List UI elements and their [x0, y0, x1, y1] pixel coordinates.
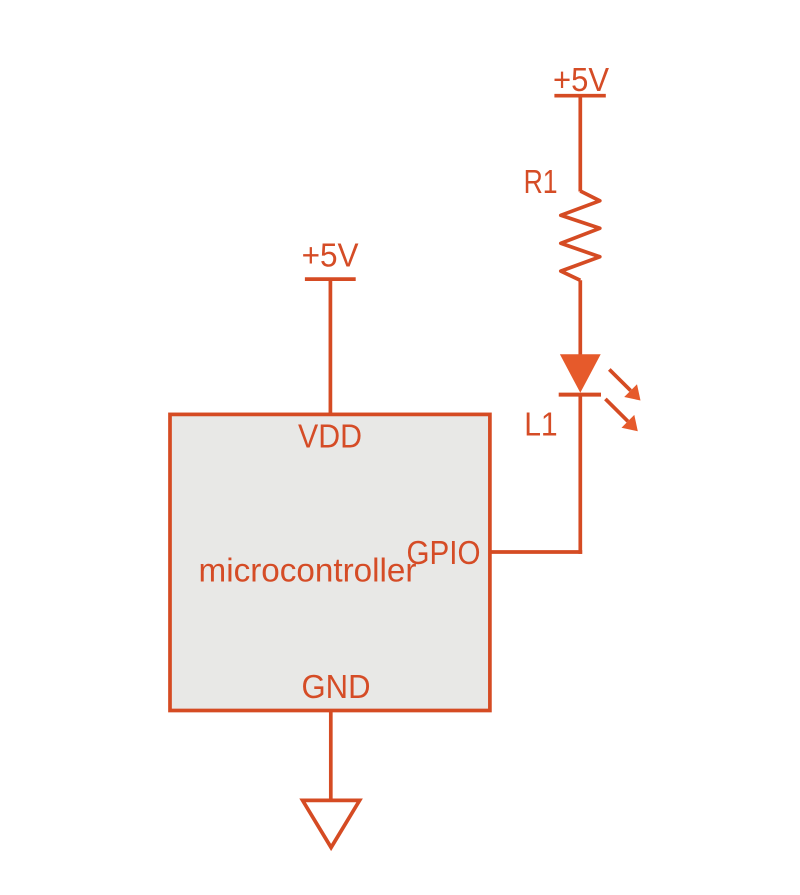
LED L1 light arrow 1 shaft [609, 369, 630, 390]
resistor R1 zigzag [561, 191, 600, 280]
svg-text:VDD: VDD [298, 418, 362, 455]
svg-text:GPIO: GPIO [407, 534, 481, 571]
svg-text:+5V: +5V [553, 61, 609, 98]
svg-text:L1: L1 [524, 405, 558, 442]
svg-text:microcontroller: microcontroller [199, 551, 417, 588]
power symbol +5V left bar [305, 277, 356, 281]
wire LED cathode down to GPIO node [578, 395, 582, 554]
wire resistor to LED [578, 280, 582, 357]
wire +5V left to VDD [329, 279, 333, 414]
wire GND pin to ground symbol [329, 711, 333, 800]
wire +5V right to resistor [578, 96, 582, 192]
wire GPIO horizontal [490, 550, 582, 554]
svg-text:+5V: +5V [302, 237, 359, 274]
power symbol +5V right bar [554, 94, 605, 98]
svg-text:R1: R1 [524, 163, 558, 200]
LED L1 light arrow 2 shaft [605, 399, 628, 421]
LED L1 light arrow 1 head [624, 384, 640, 400]
ground symbol triangle [303, 800, 360, 847]
LED L1 light arrow 2 head [622, 415, 638, 431]
LED L1 triangle (anode) [560, 354, 601, 393]
microcontroller U1 box [170, 414, 490, 710]
svg-text:GND: GND [302, 668, 371, 705]
LED L1 cathode bar [559, 393, 601, 397]
